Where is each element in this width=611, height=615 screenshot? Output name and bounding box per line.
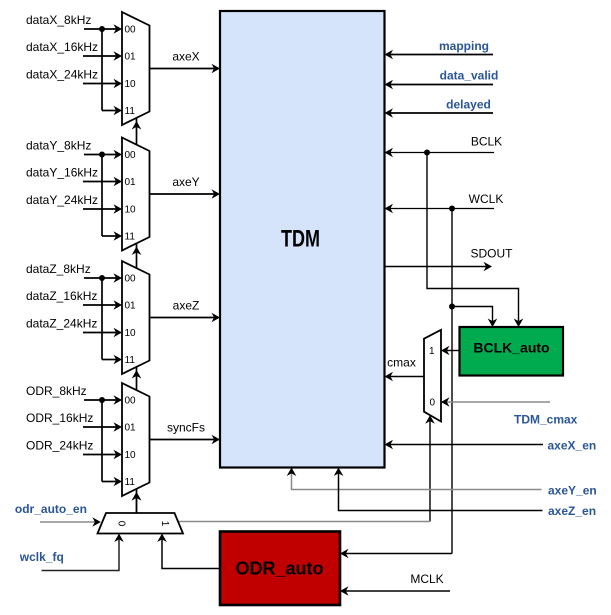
mux M6 (odr 2:1 mux horizontal) [98,513,184,534]
svg-text:TDM_cmax: TDM_cmax [514,413,578,427]
wire dataY_16kHz into input 01 [83,177,122,187]
svg-text:11: 11 [125,355,136,366]
wire WCLK branch to ODR_auto [340,549,452,559]
svg-text:0: 0 [116,521,127,527]
wire dataZ_16kHz into input 01 [83,300,122,310]
svg-text:01: 01 [125,423,137,434]
wire WCLK vertical branch down [451,209,453,554]
svg-text:0: 0 [430,398,436,409]
svg-text:BCLK_auto: BCLK_auto [473,340,549,356]
label axeX [172,50,199,64]
label axeY [172,175,199,189]
wire delayed input [385,108,494,118]
svg-text:axeY_en: axeY_en [548,484,597,498]
wire syncFs output to TDM [150,435,221,445]
svg-text:ODR_auto: ODR_auto [235,559,323,579]
wire odr_auto_en continuation to cmax select [179,521,430,523]
node WCLK junction dot [449,206,455,212]
svg-text:11: 11 [125,106,136,117]
wire axeZ_en input [334,468,543,511]
wire BCLK input [385,148,495,158]
label ODR_24kHz [26,439,93,453]
wire ODR_auto output into bottom mux input 1 [157,534,220,569]
svg-text:BCLK: BCLK [471,135,502,149]
svg-text:1: 1 [159,521,170,527]
wire dataY_24kHz into input 10 [83,204,122,214]
svg-text:odr_auto_en: odr_auto_en [15,502,87,516]
svg-text:dataX_24kHz: dataX_24kHz [26,68,98,82]
wire ODR_16kHz into input 01 [83,422,122,432]
node junction dot on dataY_8kHz [99,152,105,158]
svg-text:10: 10 [125,328,137,339]
svg-text:10: 10 [125,79,137,90]
svg-text:dataY_24kHz: dataY_24kHz [26,193,98,207]
wire WCLK input [385,204,495,214]
wire MCLK into ODR_auto [340,586,450,596]
svg-text:MCLK: MCLK [410,572,443,586]
svg-text:dataX_8kHz: dataX_8kHz [26,13,91,27]
label dataZ_16kHz [26,289,97,303]
wire cmax select vertical from odr_auto_en [425,415,435,521]
wire dataX_8kHz into input 00 [84,24,122,34]
label axeY_en [548,484,597,498]
label odr_auto_en [15,502,87,516]
block BCLK_auto [460,327,564,376]
mux M1 (axeX 4:1 mux) [122,12,150,125]
node BCLK junction dot [424,150,430,156]
wire cmax output to TDM [385,372,425,382]
svg-text:TDM: TDM [281,225,320,252]
label syncFs [167,421,205,435]
svg-text:1: 1 [429,346,435,357]
label dataZ_24kHz [26,317,97,331]
node junction dot on ODR_8kHz [99,397,105,403]
label delayed [446,98,491,112]
svg-text:01: 01 [125,52,137,63]
svg-text:axeX_en: axeX_en [548,439,597,453]
wire axeY_en input [287,468,542,490]
wire tee dataX_8kHz to input 11 [102,29,122,115]
node junction dot on dataX_8kHz [99,26,105,32]
wire dataX_16kHz into input 01 [83,51,122,61]
svg-text:dataZ_24kHz: dataZ_24kHz [26,317,97,331]
wire dataY_8kHz into input 00 [84,150,122,160]
svg-text:axeY: axeY [172,175,199,189]
svg-text:00: 00 [125,150,137,161]
svg-text:dataX_16kHz: dataX_16kHz [26,40,98,54]
label dataX_8kHz [26,13,91,27]
label dataY_24kHz [26,193,98,207]
label axeZ [173,299,200,313]
svg-text:dataY_8kHz: dataY_8kHz [26,139,91,153]
wire tee dataZ_8kHz to input 11 [102,278,122,364]
svg-text:10: 10 [125,205,137,216]
wire ODR_24kHz into input 10 [83,450,122,460]
svg-text:01: 01 [125,177,137,188]
svg-text:ODR_16kHz: ODR_16kHz [26,411,93,425]
svg-text:SDOUT: SDOUT [471,247,514,261]
svg-text:cmax: cmax [387,356,416,370]
svg-text:dataZ_16kHz: dataZ_16kHz [26,289,97,303]
svg-text:ODR_8kHz: ODR_8kHz [26,384,87,398]
svg-text:11: 11 [125,232,136,243]
label BCLK [471,135,502,149]
svg-text:01: 01 [125,301,137,312]
wire mux select net vertical [136,118,138,513]
wire bottom mux output to M4 select [132,492,142,513]
wire wclk_fq into bottom mux input 0 [42,534,124,571]
wire dataZ_8kHz into input 00 [84,273,122,283]
label ODR_8kHz [26,384,87,398]
wire odr_auto_en into bottom mux select [40,517,101,527]
label cmax [387,356,416,370]
svg-text:11: 11 [125,477,136,488]
label mapping [439,39,489,53]
svg-text:dataZ_8kHz: dataZ_8kHz [26,262,91,276]
label WCLK [469,192,504,206]
label dataY_8kHz [26,139,91,153]
wire mapping input [385,50,494,60]
wire BCLK branch to BCLK_auto [427,153,523,328]
wire tee dataY_8kHz to input 11 [102,155,122,241]
node junction dot on dataZ_8kHz [99,275,105,281]
svg-text:00: 00 [125,25,137,36]
block TDM [220,11,385,468]
label dataZ_8kHz [26,262,91,276]
wire SDOUT output [385,262,493,272]
svg-text:mapping: mapping [439,39,489,53]
svg-text:syncFs: syncFs [167,421,205,435]
mux M2 (axeY 4:1 mux) [122,138,150,251]
svg-text:00: 00 [125,274,137,285]
svg-text:wclk_fq: wclk_fq [19,550,64,564]
wire tee ODR_8kHz to input 11 [102,400,122,486]
node WCLK branch junction dot [449,304,455,310]
label wclk_fq [19,550,64,564]
wire dataX_24kHz into input 10 [83,79,122,89]
wire data_valid input [385,80,494,90]
svg-text:ODR_24kHz: ODR_24kHz [26,439,93,453]
svg-text:axeZ_en: axeZ_en [548,504,596,518]
svg-text:dataY_16kHz: dataY_16kHz [26,166,98,180]
svg-text:00: 00 [125,396,137,407]
label SDOUT [471,247,514,261]
label MCLK [410,572,443,586]
svg-text:axeX: axeX [172,50,199,64]
wire axeX_en input [385,440,544,450]
wire select arrow into mux M4 [132,492,142,501]
label TDM_cmax [514,413,578,427]
block ODR_auto [220,532,340,606]
label axeZ_en [548,504,596,518]
label dataX_24kHz [26,68,98,82]
wire axeZ output to TDM [150,313,221,323]
label axeX_en [548,439,597,453]
label dataY_16kHz [26,166,98,180]
wire select arrow into mux M2 [132,247,142,256]
wire BCLK_auto output into cmax input 1 [441,346,460,356]
svg-text:WCLK: WCLK [469,192,504,206]
wire axeY output to TDM [150,189,221,199]
wire select arrow into mux M3 [132,370,142,379]
wire select arrow into mux M1 [132,121,142,130]
wire TDM_cmax into cmax input 0 [441,397,550,407]
mux M3 (axeZ 4:1 mux) [122,261,150,374]
mux M4 (syncFs 4:1 mux) [122,383,150,496]
label ODR_16kHz [26,411,93,425]
mux M5 (cmax 2:1 mux) [424,330,441,422]
label dataX_16kHz [26,40,98,54]
svg-text:delayed: delayed [446,98,491,112]
wire dataZ_24kHz into input 10 [83,328,122,338]
wire ODR_8kHz into input 00 [84,395,122,405]
svg-text:axeZ: axeZ [173,299,200,313]
wire axeX output to TDM [150,64,221,74]
svg-text:10: 10 [125,450,137,461]
svg-text:data_valid: data_valid [440,69,499,83]
label data_valid [440,69,499,83]
wire WCLK branch to BCLK_auto [452,307,497,328]
